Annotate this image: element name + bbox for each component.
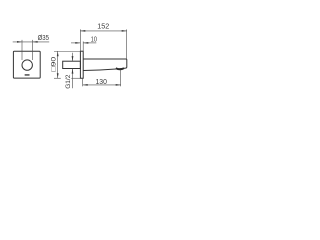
dim 152 dimension line <box>80 30 126 32</box>
dim square-90 dimension line <box>57 51 59 78</box>
dim O35 arrows <box>17 41 22 43</box>
front view circle (spout base) <box>22 60 32 70</box>
extension line wall face x=80.4 <box>79 29 81 51</box>
side view plate <box>80 51 83 78</box>
dim O35 extension lines <box>21 40 23 60</box>
svg-text:152: 152 <box>97 22 109 31</box>
extension line spout tip x=126.7 <box>126 29 128 59</box>
dim 130 dimension line <box>83 84 121 86</box>
svg-text:G1/2: G1/2 <box>65 74 72 89</box>
side view inlet stub G1/2 <box>63 61 81 68</box>
dim square-90 arrows <box>57 51 59 56</box>
spout body <box>83 59 127 70</box>
front view escutcheon plate <box>13 51 40 78</box>
extension line plate back down x=82.7 <box>82 78 84 86</box>
logo dash on plate <box>25 74 30 75</box>
dim 10 dimension line <box>71 42 80 44</box>
dim O35 dimension line <box>13 41 33 43</box>
svg-text:Ø35: Ø35 <box>38 33 49 42</box>
dim square-90 top extension line <box>54 50 80 52</box>
G1/2 dimension line + arrows <box>72 53 74 61</box>
dim square-90 bottom extension line <box>54 77 61 79</box>
spout outlet arc (aerator) <box>116 68 124 69</box>
extension line plate front x=83.2 <box>82 41 84 51</box>
extension line outlet x=120.7 <box>120 70 122 86</box>
svg-text:□90: □90 <box>51 56 58 71</box>
svg-text:130: 130 <box>96 77 107 86</box>
svg-text:10: 10 <box>91 34 97 43</box>
